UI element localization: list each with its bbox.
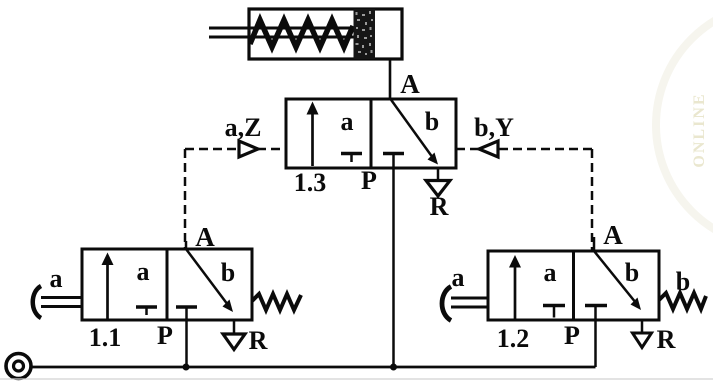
wire: valve 1.3 P drop (392, 168, 395, 367)
scan artifact line (0, 378, 713, 380)
valve 1.2 blocked port (position a) (543, 306, 565, 318)
valve 1.2 A-to-R flow arrow (594, 251, 641, 310)
pilot arrow b,Y (479, 141, 498, 157)
wire: dashed pilot riser from valve 1.1 A (184, 149, 187, 249)
svg-text:P: P (564, 321, 580, 350)
valve 1.3 A-to-R flow arrow (391, 99, 439, 165)
svg-text:P: P (361, 166, 377, 195)
svg-text:a: a (544, 258, 557, 287)
valve 1.2 position-a flow arrow (509, 255, 521, 320)
svg-text:R: R (657, 325, 676, 354)
wire: pilot a,Z to valve 1.3 (257, 148, 286, 151)
valve 1.1 blocked port P (position b) (176, 307, 197, 320)
valve 1.2 body (488, 251, 659, 320)
valve 1.3 blocked port (position a) (341, 154, 362, 163)
pressure source (6, 354, 31, 379)
valve 1.1 body (82, 249, 252, 320)
svg-text:1.2: 1.2 (497, 324, 530, 353)
svg-text:1.1: 1.1 (89, 323, 122, 352)
wire: valve 1.2 A stub (593, 237, 596, 251)
svg-text:ONLINE: ONLINE (691, 92, 708, 167)
svg-text:b: b (221, 258, 235, 287)
wire: dashed pilot riser from valve 1.2 A (591, 149, 594, 250)
svg-text:b: b (676, 267, 690, 296)
wire: valve 1.1 P drop (185, 320, 188, 367)
valve 1.2 exhaust R (633, 320, 652, 348)
svg-text:a: a (137, 257, 150, 286)
junction at valve 1.3 P (390, 364, 397, 371)
junction at valve 1.1 P (183, 364, 190, 371)
svg-text:a: a (50, 264, 63, 293)
cylinder 1.0 body (249, 9, 402, 59)
valve 1.1 return spring (252, 294, 301, 310)
cylinder piston (354, 9, 376, 59)
valve 1.3 position-a flow arrow (307, 102, 319, 167)
valve 1.2 pushbutton actuator (442, 287, 488, 321)
valve 1.3 body (286, 99, 456, 168)
cylinder return spring (250, 20, 353, 47)
wire: valve 1.3 to pilot arrow b,Y (456, 148, 479, 151)
valve 1.1 pushbutton actuator (33, 286, 82, 318)
svg-text:A: A (400, 69, 420, 99)
svg-text:a,Z: a,Z (225, 113, 262, 142)
svg-text:a: a (452, 263, 465, 292)
wire: valve 1.1 A stub (185, 241, 188, 249)
cylinder piston rod (209, 27, 354, 30)
pilot arrow a,Z (239, 141, 258, 157)
pilot signal line a,Z (dashed) (185, 148, 238, 151)
valve 1.2 blocked port P (position b) (585, 306, 607, 321)
valve 1.3 exhaust R (426, 168, 450, 196)
svg-text:b: b (425, 107, 439, 136)
watermark circle (656, 3, 713, 247)
svg-text:1.3: 1.3 (294, 168, 327, 197)
svg-text:A: A (603, 220, 623, 250)
pilot signal line b,Y (dashed) (499, 148, 592, 151)
wire: valve 1.2 P drop (594, 320, 597, 367)
svg-text:P: P (157, 321, 173, 350)
svg-text:a: a (341, 107, 354, 136)
wire: cylinder port to valve 1.3 port A (389, 59, 392, 99)
valve 1.3 blocked port P (position b) (383, 154, 404, 169)
valve 1.2 return spring (659, 293, 706, 309)
valve 1.1 blocked port (position a) (136, 307, 157, 315)
svg-text:b: b (625, 258, 639, 287)
wire: supply bus (32, 366, 596, 369)
svg-text:R: R (249, 326, 268, 355)
valve 1.1 exhaust R (223, 320, 245, 350)
svg-text:b,Y: b,Y (474, 113, 514, 142)
valve 1.1 position-a flow arrow (102, 253, 114, 321)
valve 1.1 A-to-R flow arrow (186, 249, 233, 312)
svg-text:R: R (430, 192, 449, 221)
